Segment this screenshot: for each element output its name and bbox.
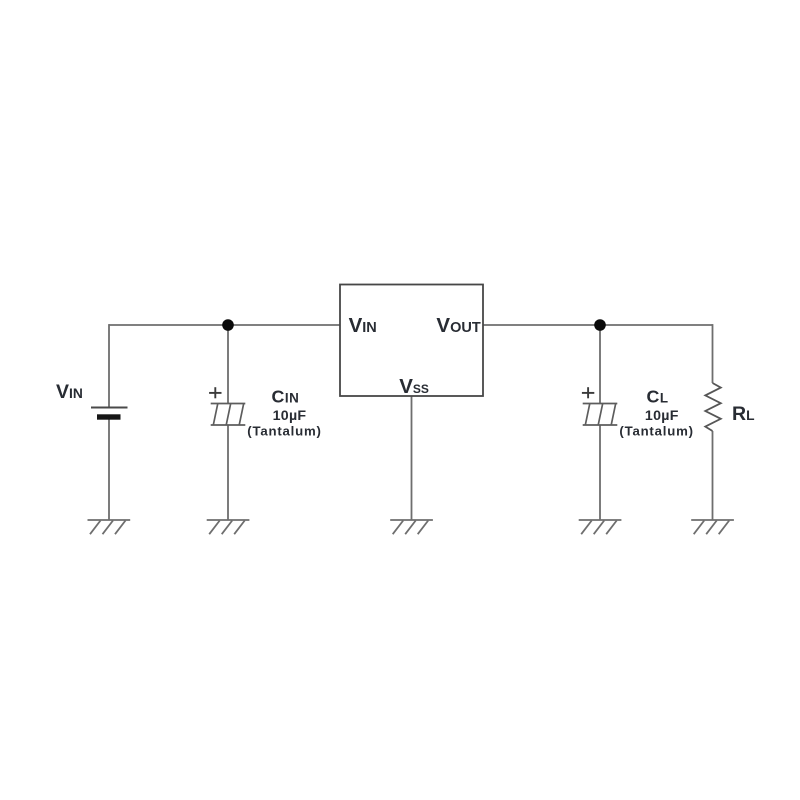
svg-text:(Tantalum): (Tantalum)	[247, 423, 321, 438]
svg-text:10µF: 10µF	[645, 408, 679, 424]
svg-text:10µF: 10µF	[273, 408, 307, 424]
svg-text:(Tantalum): (Tantalum)	[619, 423, 693, 438]
